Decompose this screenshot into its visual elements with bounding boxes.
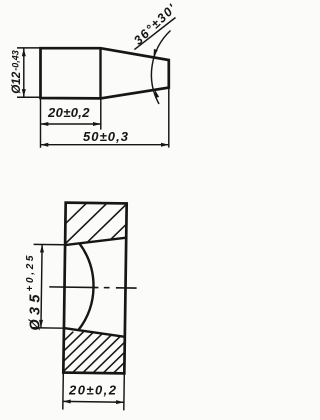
svg-text:+0,25: +0,25	[25, 255, 36, 291]
svg-text:20±0,2: 20±0,2	[47, 105, 90, 120]
svg-text:50±0,3: 50±0,3	[83, 129, 129, 144]
svg-text:Ø12: Ø12	[9, 71, 23, 93]
svg-text:-0,43: -0,43	[10, 50, 20, 71]
svg-text:20±0,2: 20±0,2	[68, 383, 117, 398]
svg-text:Ø35: Ø35	[27, 294, 43, 331]
